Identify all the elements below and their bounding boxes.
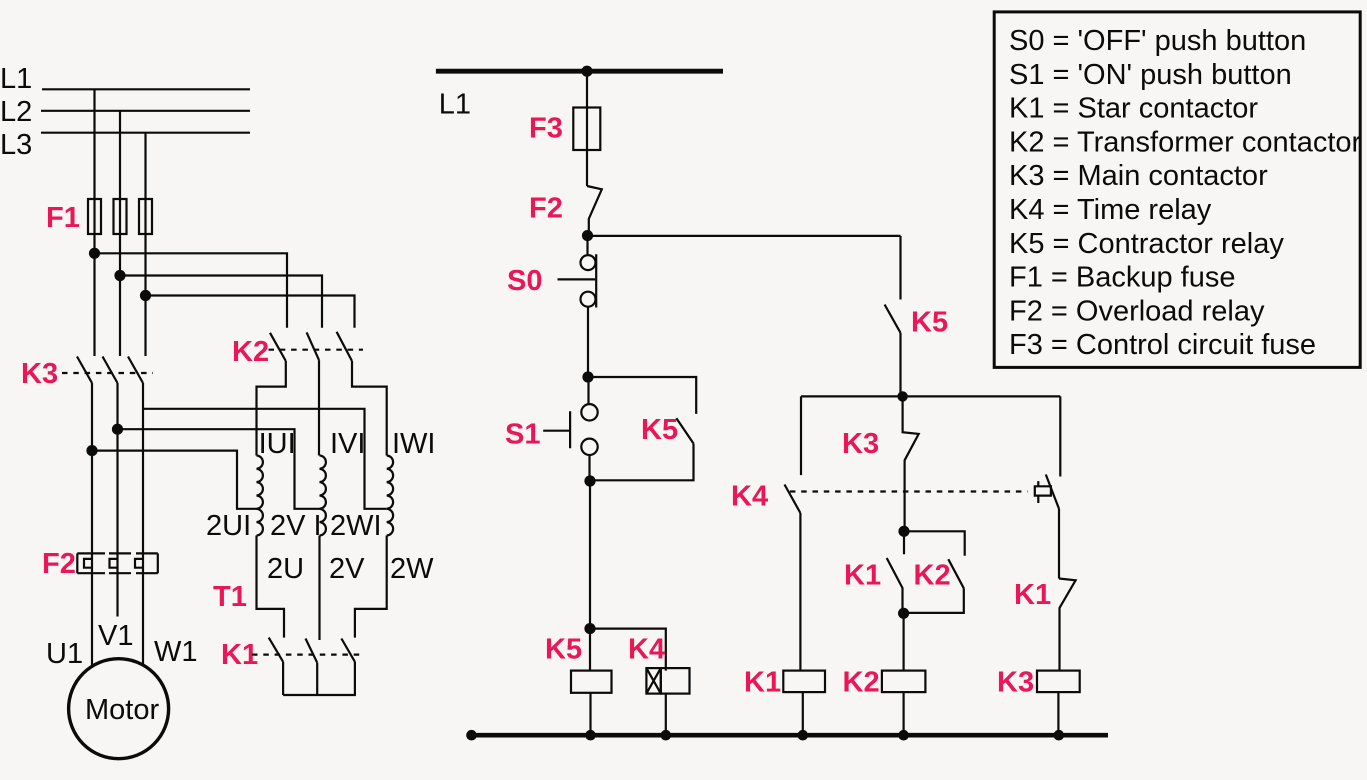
wire L1 horizontal	[42, 88, 250, 90]
svg-text:F2 = Overload relay: F2 = Overload relay	[1009, 295, 1265, 327]
junction dot phase1	[89, 248, 100, 259]
contact K2 NO blade	[948, 559, 964, 588]
wire tap1 to winding1	[92, 451, 257, 509]
legend box	[994, 12, 1360, 368]
junction dot phase2	[114, 270, 125, 281]
wire K5 branch lower	[899, 333, 901, 397]
overload F2 heater3	[135, 559, 143, 568]
legend text	[1009, 25, 1362, 361]
svg-text:2UI: 2UI	[206, 510, 251, 542]
overload F2 heater1	[84, 559, 92, 568]
svg-text:K1 = Star contactor: K1 = Star contactor	[1009, 93, 1258, 125]
K3 contact pole1	[77, 357, 92, 384]
junction dot K1K2 bottom	[898, 608, 909, 619]
push button S0 actuator	[558, 278, 596, 280]
K2 contact pole3	[337, 332, 352, 361]
wire K4 contact to K1 coil	[799, 513, 801, 671]
svg-text:W1: W1	[154, 636, 198, 668]
svg-text:IVI: IVI	[330, 428, 365, 460]
wire K5 branch vertical	[899, 236, 901, 300]
svg-text:U1: U1	[46, 638, 83, 670]
wire phase3 vertical	[144, 133, 146, 356]
K3 contact pole3	[128, 357, 143, 384]
wire branch to K4 coil	[590, 629, 666, 671]
wire K4 coil bottom	[665, 694, 667, 735]
svg-text:Motor: Motor	[85, 694, 159, 726]
wire K4 contact branch upper	[800, 396, 802, 475]
coil K2	[882, 671, 926, 693]
wire K2 pole2 to winding2 top	[318, 360, 320, 455]
svg-text:T1: T1	[213, 581, 247, 613]
svg-text:K4: K4	[628, 634, 665, 666]
rail dot K4	[661, 730, 672, 741]
wire time contact to K1 NC	[1058, 509, 1060, 579]
svg-text:F3: F3	[529, 113, 563, 145]
wire S0 to S1 node	[587, 307, 589, 377]
svg-text:2U: 2U	[267, 553, 304, 585]
wire rail to F2 contact	[586, 71, 588, 186]
svg-text:S1: S1	[505, 419, 540, 451]
fuse F3	[573, 108, 600, 151]
svg-text:K5: K5	[545, 634, 582, 666]
K1 contact pole3	[341, 639, 355, 662]
time delay actuator box	[1035, 481, 1051, 503]
K2 link dashed	[269, 349, 364, 351]
svg-text:F3 = Control circuit fuse: F3 = Control circuit fuse	[1009, 329, 1316, 361]
svg-text:K3: K3	[21, 358, 58, 390]
junction dot above S1	[582, 371, 593, 382]
fuse F1 pole a	[88, 199, 101, 234]
svg-text:L3: L3	[0, 129, 32, 161]
wire phase3 lower to motor	[142, 383, 144, 676]
fuse F1 pole b	[114, 199, 127, 234]
bottom rail	[471, 733, 1108, 738]
overload F2 heater2	[110, 559, 118, 568]
push button S0 contact circles	[581, 255, 596, 270]
wire S1 node down to coils	[589, 481, 591, 629]
wire K5 parallel return	[590, 444, 694, 481]
svg-text:K5: K5	[911, 307, 948, 339]
junction dot K1K2 top	[898, 526, 909, 537]
svg-text:K3 = Main contactor: K3 = Main contactor	[1009, 160, 1268, 192]
svg-text:L1: L1	[439, 89, 471, 121]
wire S1 top stub	[587, 377, 589, 404]
rail dot K3	[1054, 730, 1065, 741]
wire K1 coil bottom	[802, 692, 804, 735]
junction dot tap1	[86, 445, 97, 456]
wire K5 coil top	[589, 629, 591, 671]
svg-text:2WI: 2WI	[330, 510, 382, 542]
svg-text:K3: K3	[842, 428, 879, 460]
wire K2 pole1 to winding1 top	[257, 361, 286, 456]
wire S1 bottom to K5 node	[588, 455, 590, 481]
contact K1 NC	[1059, 579, 1076, 671]
push button S1 actuator	[543, 411, 570, 448]
coil K3	[1037, 671, 1080, 693]
junction dot tap2	[112, 424, 123, 435]
svg-text:F1: F1	[46, 202, 80, 234]
K3 contact pole2	[103, 357, 118, 384]
junction dot K5 coil branch	[584, 623, 595, 634]
wire S1 node to K5 contact	[588, 377, 696, 414]
wire F2 node to S0	[586, 236, 588, 256]
svg-text:K1: K1	[1014, 579, 1051, 611]
svg-text:K2: K2	[914, 560, 951, 592]
overload F2 frame	[77, 553, 158, 573]
wire winding1 bottom to K1	[257, 536, 285, 638]
wire K2 coil bottom	[902, 692, 904, 735]
wire K2 pole3 to winding3 top	[352, 361, 387, 456]
junction dot below F2	[582, 230, 593, 241]
wire star point	[283, 662, 356, 695]
motor M1	[69, 659, 169, 759]
svg-text:S1 = 'ON' push button: S1 = 'ON' push button	[1009, 59, 1292, 91]
wire right bus	[801, 395, 1060, 397]
K4 link dashed	[790, 490, 1028, 492]
wire time contact branch upper	[1059, 396, 1061, 476]
K2 contact pole2	[307, 332, 319, 360]
contact K5 branch blade	[885, 305, 901, 333]
svg-text:F2: F2	[529, 193, 563, 225]
wire F2 node to K5 branch	[588, 235, 901, 237]
junction dot rail	[581, 66, 592, 77]
wire branch to K2 contact	[904, 531, 965, 556]
svg-text:F2: F2	[42, 548, 76, 580]
wire phase2 vertical	[119, 111, 121, 356]
svg-text:IWI: IWI	[392, 428, 436, 460]
rail dot K1	[798, 730, 809, 741]
T1 winding2	[320, 456, 326, 536]
svg-text:F1 = Backup fuse: F1 = Backup fuse	[1009, 262, 1236, 294]
svg-text:K2: K2	[843, 667, 880, 699]
wire L3 horizontal	[41, 132, 250, 134]
svg-text:2W: 2W	[390, 553, 434, 585]
K3 link dashed	[62, 372, 153, 374]
wire phase3 branch to K2	[146, 296, 355, 328]
junction dot bus	[897, 391, 907, 401]
K2 contact pole1	[270, 333, 286, 361]
contact K5 parallel blade	[676, 418, 693, 443]
T1 winding1	[257, 456, 263, 536]
wire phase1 vertical	[93, 89, 95, 356]
fuse F1 pole c	[139, 199, 152, 234]
svg-text:S0: S0	[507, 265, 542, 297]
svg-text:L1: L1	[0, 63, 32, 95]
wire phase1 branch to K2	[95, 253, 288, 327]
contact K3 NC	[903, 396, 919, 531]
junction dot phase3	[140, 290, 151, 301]
svg-text:2V I: 2V I	[270, 510, 322, 542]
wire phase2 lower to motor	[116, 383, 118, 672]
push button S1 contact circles	[581, 404, 597, 420]
rail dot K2	[898, 730, 909, 741]
time delay contact blade	[1046, 475, 1059, 509]
svg-text:K2: K2	[232, 336, 269, 368]
control rail L1	[436, 69, 723, 74]
wire phase1 lower to motor	[91, 383, 93, 668]
svg-text:2V: 2V	[329, 553, 365, 585]
svg-text:S0 = 'OFF' push button: S0 = 'OFF' push button	[1009, 25, 1306, 57]
svg-text:V1: V1	[98, 620, 133, 652]
svg-text:K5 = Contractor relay: K5 = Contractor relay	[1009, 228, 1284, 260]
wire winding2 bottom to K1	[318, 536, 320, 641]
contact K1 NO	[887, 531, 904, 613]
wire tap2 to winding2	[118, 429, 320, 509]
K1 contact pole2	[306, 639, 318, 663]
wire to K2 coil	[902, 613, 904, 670]
svg-text:IUI: IUI	[259, 428, 296, 460]
svg-text:K5: K5	[641, 414, 678, 446]
wire phase2 branch to K2	[120, 276, 322, 328]
coil K5	[571, 671, 612, 693]
wire winding3 bottom to K1	[355, 536, 387, 638]
wire K2 contact return	[904, 588, 964, 613]
svg-text:K4 = Time relay: K4 = Time relay	[1009, 194, 1212, 226]
svg-text:K4: K4	[731, 481, 768, 513]
svg-text:K2 = Transformer contactor: K2 = Transformer contactor	[1009, 126, 1362, 158]
wire tap3 to winding3	[143, 409, 387, 509]
K1 contact pole1	[269, 638, 283, 662]
overload contact F2	[587, 186, 602, 236]
wire L2 horizontal	[41, 110, 250, 112]
rail dot K5	[585, 730, 596, 741]
K1 link dashed	[252, 653, 365, 655]
svg-text:K3: K3	[997, 667, 1034, 699]
svg-text:L2: L2	[0, 96, 32, 128]
svg-text:K1: K1	[744, 667, 781, 699]
wire K5 coil bottom	[589, 693, 591, 735]
rail dot left end	[466, 730, 477, 741]
coil K1	[783, 671, 825, 693]
coil K4 timer	[646, 668, 689, 694]
wire K3 coil bottom	[1057, 692, 1059, 735]
junction dot below S1	[584, 475, 595, 486]
svg-text:K1: K1	[844, 560, 881, 592]
push button S0 bridge	[595, 254, 597, 307]
T1 winding3	[387, 456, 393, 536]
contact K4 blade	[785, 485, 801, 514]
